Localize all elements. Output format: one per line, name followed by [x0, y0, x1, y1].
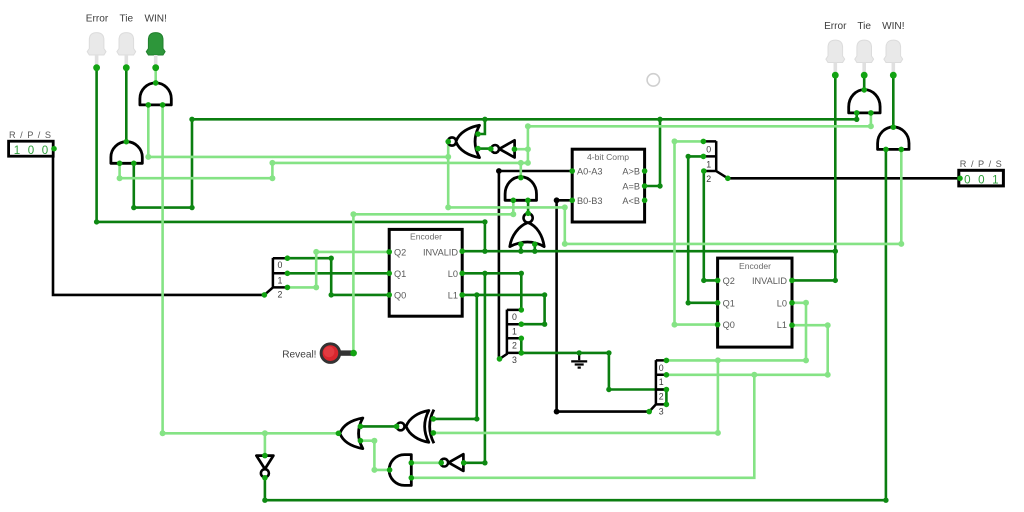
- NOR gate U3 (up-facing): [510, 213, 544, 246]
- LED D2 (Tie left, off): [117, 33, 136, 72]
- faint circle marker: [647, 74, 659, 86]
- AND gate G2 (WIN-L): [140, 83, 171, 105]
- splitter SP1 tip nodes: [285, 255, 291, 290]
- svg-text:Reveal!: Reveal!: [282, 349, 316, 360]
- wire net L1-L branch to XNOR U6 upper input: [433, 295, 477, 419]
- encoder E1 pins: [386, 248, 465, 297]
- svg-text:0: 0: [978, 173, 984, 186]
- svg-text:Q2: Q2: [723, 276, 735, 286]
- wire net A=B stub to NOR U2 upper input: [478, 119, 485, 134]
- svg-text:0: 0: [278, 260, 283, 270]
- wire net A=B long bus y119: [192, 118, 857, 121]
- svg-text:WIN!: WIN!: [882, 21, 904, 32]
- junction dots on dark-green nets: [94, 117, 889, 503]
- AND gate G4 (left-facing): [389, 455, 411, 486]
- wire bus A0-A3 from splitter SP3 to comparator: [499, 171, 572, 358]
- wire net L1-R branch to AND G4 lower input: [411, 375, 754, 478]
- svg-text:0: 0: [659, 363, 664, 373]
- NOT gate U9 (down-facing): [256, 456, 273, 478]
- wire splitter SP2 bit2 to encoder E2 Q2: [704, 171, 718, 280]
- svg-text:0: 0: [28, 144, 34, 157]
- splitter SP3 tip nodes: [519, 307, 525, 356]
- NOT U4 pins: [488, 146, 517, 152]
- wire net A=B riser: [646, 119, 660, 186]
- wire LED D2 Tie-L lead: [125, 68, 128, 142]
- XNOR gate U6 (left-facing): [397, 410, 434, 444]
- NOR gate U2 (left-facing): [448, 125, 480, 157]
- splitter SP4 tip nodes: [664, 358, 670, 408]
- input IN1 value box (left): [9, 141, 54, 156]
- svg-text:1: 1: [706, 159, 711, 169]
- wire net M: AND G3 output up: [519, 163, 522, 178]
- wire net NOR-U2-out down: [447, 142, 450, 208]
- svg-text:1: 1: [992, 173, 998, 186]
- encoder E2 pin labels: [723, 276, 788, 330]
- gate G6 pins: [883, 124, 904, 152]
- wire NOR U3 right input stub: [533, 244, 536, 251]
- wire net NOR-U2-out to WIN-L left input: [148, 105, 448, 157]
- AND gate G5 (Tie-R): [849, 90, 880, 113]
- wire net Error: INVALID-L across to Error-R: [462, 250, 835, 253]
- encoder E1 pin labels: [394, 247, 458, 300]
- junction dots on light-green nets: [117, 123, 905, 473]
- black bus corner dots: [496, 168, 559, 414]
- svg-text:A>B: A>B: [622, 167, 640, 177]
- wire OR U5 output to WIN-L right input: [163, 105, 338, 433]
- svg-text:Error: Error: [824, 21, 847, 32]
- svg-text:1: 1: [659, 377, 664, 387]
- svg-text:3: 3: [512, 355, 517, 365]
- svg-text:INVALID: INVALID: [423, 247, 458, 257]
- output OUT1 digits 0 0 1: [964, 173, 998, 186]
- wire NOT U8 output to AND G4 upper input: [411, 461, 441, 464]
- wire encoder E1 L1 to splitter SP3 bit1: [462, 295, 544, 324]
- wire NOT U4 output to NOR U2 lower input: [478, 147, 491, 150]
- wire XNOR U6 output to OR U5 upper input: [360, 425, 396, 428]
- wire splitter SP2 bit0 to encoder E2 Q0: [675, 141, 718, 324]
- splitter SP4 (B-bus, 4-bit): [649, 360, 666, 412]
- splitter SP2 bit labels: [706, 144, 711, 184]
- NOT gate U8 (left-facing): [440, 454, 463, 471]
- wire bus B0-B3 from splitter SP4 to comparator: [557, 200, 650, 411]
- svg-text:Q0: Q0: [723, 320, 735, 330]
- splitter SP1 (input left, 3-bit): [264, 258, 287, 295]
- wire ground net to splitter SP3 bits2-3: [520, 338, 523, 353]
- wire button B1 net riser: [353, 200, 513, 352]
- wire ground net to splitter SP4 bits2-3: [665, 390, 668, 405]
- NOR U3 pins: [518, 211, 537, 248]
- gate G5 pins: [854, 87, 874, 116]
- svg-text:1: 1: [278, 275, 283, 285]
- LED D5 (Tie right, off): [855, 40, 874, 79]
- gate G3 pins: [511, 175, 531, 203]
- svg-text:L0: L0: [777, 298, 787, 308]
- wire net A=B branch to AND G5 (Tie-R) left input: [855, 112, 858, 120]
- wire encoder E1 L0 to splitter SP3 bit0: [462, 273, 521, 310]
- wire net Error: LED D1 down and across: [97, 68, 485, 251]
- wire splitter SP2 bit1 to encoder E2 Q1: [688, 156, 717, 302]
- svg-text:Error: Error: [86, 14, 109, 25]
- svg-text:Tie: Tie: [857, 21, 871, 32]
- svg-text:2: 2: [512, 341, 517, 351]
- input IN1 digits 1 0 0: [14, 144, 48, 157]
- svg-text:R / P / S: R / P / S: [9, 130, 52, 140]
- svg-text:0: 0: [512, 312, 517, 322]
- wire splitter SP1 bit2 to encoder E1 Q2: [287, 252, 389, 288]
- splitter SP2 (output right, 3-bit): [703, 141, 727, 178]
- NOT gate U4 (left-facing): [491, 140, 514, 157]
- push button B1 (Reveal): [321, 344, 357, 363]
- svg-text:A0-A3: A0-A3: [577, 167, 603, 177]
- wire ground net horizontal: [521, 353, 664, 390]
- AND gate G6 (WIN-R): [878, 127, 909, 149]
- wire splitter SP1 bit1 to encoder E1 Q1: [287, 272, 389, 275]
- splitter SP2 tip nodes: [701, 139, 707, 174]
- XNOR U6 pins: [394, 416, 436, 436]
- splitter SP1 bit labels: [278, 260, 283, 299]
- AND gate G1 (Tie-L): [111, 142, 142, 164]
- LED D4 (Error right, off): [826, 40, 845, 79]
- svg-text:A=B: A=B: [622, 181, 640, 191]
- NOT U9 pins: [262, 453, 268, 481]
- wire NOT U9 output to long bottom run: [265, 149, 886, 500]
- wire net L0-R from encoder E2: [668, 303, 806, 361]
- svg-text:Encoder: Encoder: [410, 231, 442, 241]
- svg-text:INVALID: INVALID: [752, 276, 787, 286]
- svg-text:0: 0: [42, 144, 48, 157]
- svg-text:2: 2: [706, 174, 711, 184]
- AND G4 pins: [387, 460, 414, 481]
- encoder E2 box: [718, 258, 792, 347]
- comparator U1 pins: [569, 168, 647, 203]
- wire net A=B branch to AND G1 (Tie-L) right input: [134, 119, 192, 207]
- svg-text:1: 1: [512, 326, 517, 336]
- wire AND G4 output to OR U5 lower input: [360, 441, 389, 470]
- svg-text:Q1: Q1: [723, 298, 735, 308]
- wire net L0-L branch to NOT U8 input: [464, 273, 485, 463]
- encoder E2 pins: [715, 278, 795, 328]
- svg-text:B0-B3: B0-B3: [577, 196, 603, 206]
- wire bus input-L to splitter SP1: [53, 150, 264, 295]
- splitter SP4 bit labels: [659, 363, 664, 417]
- svg-text:0: 0: [706, 144, 711, 154]
- svg-text:L1: L1: [777, 320, 787, 330]
- svg-text:1: 1: [14, 144, 20, 157]
- 4-bit comparator U1 box: [572, 149, 644, 222]
- wire NOR U3 output to AND G3 right input: [527, 200, 530, 213]
- OR U5 pins: [336, 424, 364, 444]
- wire net NOR-U2-out across y207: [448, 149, 901, 244]
- gate G1 pins: [117, 139, 137, 166]
- svg-text:2: 2: [659, 392, 664, 402]
- svg-text:Q1: Q1: [394, 269, 406, 279]
- svg-text:Encoder: Encoder: [739, 261, 771, 271]
- svg-text:0: 0: [964, 173, 970, 186]
- 4-bit comparator U1 pin labels: [577, 167, 640, 206]
- LED D6 (WIN right, off): [884, 40, 903, 79]
- svg-text:WIN!: WIN!: [144, 14, 166, 25]
- splitter SP3 bit labels: [512, 312, 517, 365]
- wire net M riser to y126: [528, 112, 871, 163]
- wire net M stub to NOT U4 input: [514, 148, 528, 151]
- svg-text:L0: L0: [448, 269, 458, 279]
- svg-text:L1: L1: [448, 290, 458, 300]
- NOT U8 pins: [438, 460, 466, 466]
- wire LED D6 WIN-R lead: [892, 75, 895, 127]
- ground symbol GND1: [571, 353, 587, 368]
- bus connection nodes: [51, 146, 963, 415]
- NOR U2 pins: [445, 131, 480, 151]
- wire net M to Tie-L left input: [120, 163, 273, 178]
- wire splitter SP1 bit0 to encoder E1 Q0: [287, 258, 389, 295]
- wire net L0-R branch to XNOR U6 lower input: [433, 360, 718, 433]
- OR gate U5 (left-facing): [340, 418, 363, 449]
- gate G2 pins: [146, 80, 166, 108]
- wire NOR U3 left input stub: [520, 244, 523, 251]
- svg-text:Q2: Q2: [394, 247, 406, 257]
- svg-text:R / P / S: R / P / S: [960, 159, 1003, 169]
- svg-text:Q0: Q0: [394, 290, 406, 300]
- wire net Error: LED D4 riser / INVALID-R link: [792, 75, 835, 280]
- splitter SP3 (A-bus, 4-bit): [500, 310, 522, 359]
- svg-text:A<B: A<B: [622, 196, 640, 206]
- LED D1 (Error left, off): [87, 33, 106, 72]
- wire LED D3 WIN-L lead (lit): [154, 68, 157, 83]
- wire net M across y163: [272, 162, 528, 165]
- svg-text:Tie: Tie: [119, 14, 133, 25]
- svg-text:3: 3: [659, 406, 664, 416]
- wire net L1-R from encoder E2: [668, 325, 828, 375]
- wire OR-out stub to NOT U9 input: [264, 433, 267, 455]
- LED D3 (WIN left, lit): [146, 33, 165, 72]
- svg-text:2: 2: [278, 290, 283, 300]
- AND gate G3 (middle enable): [505, 177, 536, 201]
- wire bus splitter SP2 to output-R: [728, 177, 959, 180]
- wire LED D5 Tie-R lead: [863, 75, 866, 90]
- svg-text:4-bit Comp: 4-bit Comp: [587, 152, 629, 162]
- output OUT1 value box (right): [959, 170, 1004, 186]
- encoder E1 box: [389, 229, 462, 316]
